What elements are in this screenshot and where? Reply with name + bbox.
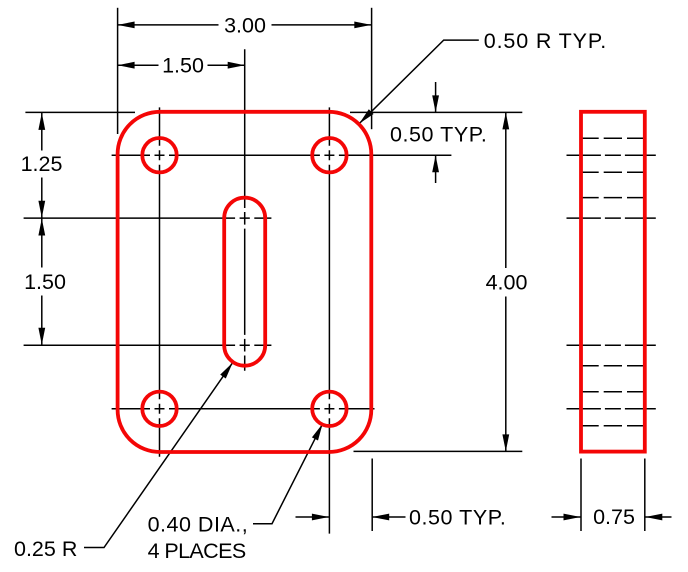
centerline vertical through left holes xyxy=(159,107,161,456)
dimension line 1.50 left vertical xyxy=(41,219,43,345)
arrow 3.00 left xyxy=(118,22,135,29)
extension line x=372.2 below plate xyxy=(371,459,373,532)
svg-text:4 PLACES: 4 PLACES xyxy=(148,539,246,563)
arrow leader 0.25R xyxy=(220,363,233,379)
extension line bottom-right of plate y=451.4 xyxy=(354,450,523,452)
arrow 1.25 down xyxy=(38,201,45,218)
slot obround xyxy=(224,198,265,366)
extension line side-view right x=644.8 xyxy=(644,459,646,532)
arrow 0.50TYP-bot right xyxy=(312,514,329,521)
centerline vertical through right holes xyxy=(328,107,330,533)
arrow leader 0.50R xyxy=(359,109,373,123)
extension line top-right of plate y=112.4 xyxy=(350,111,522,113)
extension line right of 3.00 (x=371.6) xyxy=(371,8,373,129)
extension line side-view left x=581 xyxy=(580,459,582,532)
arrow 0.50TYP up xyxy=(432,155,439,172)
svg-text:1.25: 1.25 xyxy=(21,152,63,176)
svg-text:0.40 DIA.,: 0.40 DIA., xyxy=(148,512,249,536)
side view centerline y=155.2 xyxy=(567,154,656,156)
hidden line bottom hole upper tangent xyxy=(581,391,645,393)
hidden line slot bottom xyxy=(581,365,645,367)
dimension line 0.50 TYP bottom xyxy=(296,516,406,518)
plate outline front view xyxy=(118,112,372,452)
svg-text:1.50: 1.50 xyxy=(24,270,66,294)
arrow 1.25 up xyxy=(38,113,45,130)
svg-text:0.75: 0.75 xyxy=(593,505,635,529)
extension line top-left at plate top y=112.4 xyxy=(25,111,135,113)
centerline horizontal through top holes y=155.2 xyxy=(112,154,452,156)
svg-text:0.50 TYP.: 0.50 TYP. xyxy=(390,123,487,147)
arrow 0.75 right-head xyxy=(645,514,662,521)
arrow 0.75 left-head xyxy=(564,514,581,521)
side view centerline y=218.1 xyxy=(567,217,656,219)
side view centerline y=408.8 xyxy=(567,408,656,410)
arrow leader 0.40 xyxy=(312,424,323,441)
arrow 1.50-left up xyxy=(38,219,45,236)
arrow 1.50-top left xyxy=(118,62,135,69)
hidden line top hole upper tangent xyxy=(581,137,645,139)
svg-text:3.00: 3.00 xyxy=(224,13,266,37)
svg-text:0.25 R: 0.25 R xyxy=(14,537,77,561)
leader 0.25 R xyxy=(84,363,233,548)
side view centerline y=345.2 xyxy=(567,344,656,346)
extension line / slot-top centerline y=218.1 xyxy=(24,217,272,219)
arrow 0.50TYP down xyxy=(432,95,439,112)
svg-text:1.50: 1.50 xyxy=(162,54,204,78)
hole top-right xyxy=(312,138,346,172)
centerline vertical through slot xyxy=(244,49,246,371)
hidden line top hole lower tangent xyxy=(581,171,645,173)
arrow 0.50TYP-bot left xyxy=(372,514,389,521)
hole bottom-right xyxy=(312,392,346,426)
hole bottom-left xyxy=(142,392,176,426)
extension line / slot-bottom centerline y=345.2 xyxy=(24,344,272,346)
centerline horizontal through bottom holes y=408.8 xyxy=(112,408,375,410)
arrow 1.50-top right xyxy=(228,62,245,69)
svg-text:0.50 TYP.: 0.50 TYP. xyxy=(409,506,506,530)
dimension line 0.75 xyxy=(552,516,672,518)
arrow 4.00 down xyxy=(502,434,509,451)
0.50 TYP lower arrow stem xyxy=(435,155,437,183)
dimension line 4.00 vertical xyxy=(505,112,507,451)
leader 0.50 R TYP. xyxy=(359,40,479,124)
0.50 TYP upper arrow stem xyxy=(435,82,437,112)
dimension line 3.00 xyxy=(118,24,372,26)
dimension line 1.25 vertical xyxy=(41,113,43,218)
arrow 1.50-left down xyxy=(38,328,45,345)
svg-text:0.50 R TYP.: 0.50 R TYP. xyxy=(484,29,607,53)
side view outline xyxy=(581,112,645,452)
extension line left of 3.00 (x=117.6) xyxy=(117,8,119,134)
dimension line 1.50 top xyxy=(118,64,245,66)
svg-text:4.00: 4.00 xyxy=(486,271,528,295)
leader 0.40 DIA. xyxy=(253,424,323,524)
hidden line slot top xyxy=(581,197,645,199)
hidden line bottom hole lower tangent xyxy=(581,425,645,427)
hole top-left xyxy=(142,138,176,172)
arrow 4.00 up xyxy=(502,112,509,129)
arrow 3.00 right xyxy=(354,22,371,29)
